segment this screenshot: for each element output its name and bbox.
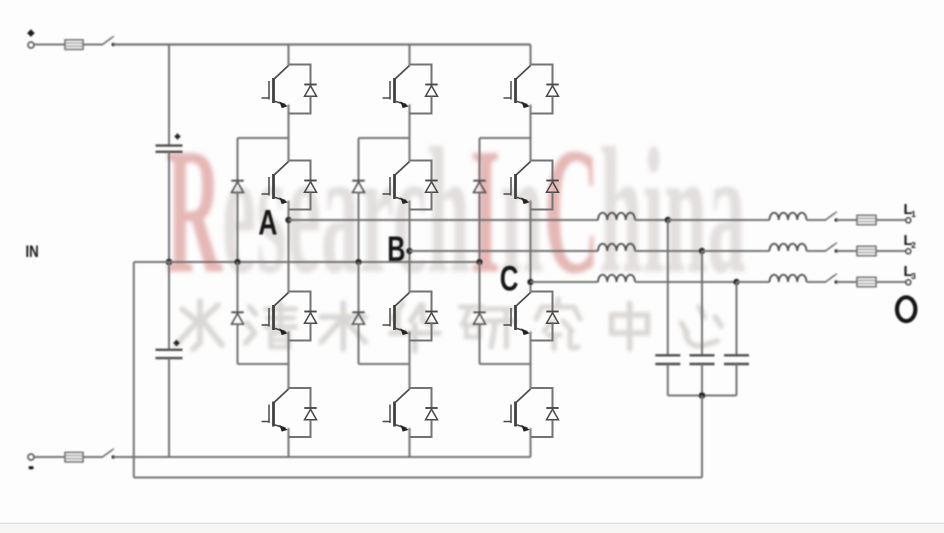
diode D5 anti-parallel freewheel: [425, 65, 437, 114]
decorative: [176, 299, 721, 351]
wire leg A main column: [288, 45, 290, 458]
wire fuse to terminal L3: [876, 281, 906, 283]
junction neutral-capacitor midpoint: [166, 259, 173, 266]
wire Q12 emitter-diode bottom link: [531, 436, 554, 438]
wire Q4 emitter-diode bottom link: [289, 436, 312, 438]
transistor Q9 IGBT: [504, 66, 531, 109]
junction phase A capacitor branch: [665, 217, 671, 223]
wire capacitor Cf2 bottom: [701, 364, 703, 395]
wire neutral riser left: [133, 262, 135, 478]
wire branch node to inductor LC2: [737, 281, 770, 283]
wire top DC bus: [113, 43, 530, 45]
wire Q10 collector-diode top link: [531, 160, 554, 162]
wire Q6 emitter-diode bottom link: [410, 209, 433, 211]
diode D8 anti-parallel freewheel: [425, 388, 437, 437]
wire leg B clamp upper link: [359, 137, 410, 139]
junction neutral leg B: [355, 259, 361, 265]
node C phase tap: [527, 279, 533, 285]
diode D7 anti-parallel freewheel: [425, 292, 437, 341]
wire top bus to capacitor C1: [168, 45, 170, 146]
wire inductor LC2 to switch: [807, 281, 827, 283]
svg-text:IN: IN: [26, 242, 39, 261]
decorative: [0, 523, 944, 533]
wire inductor LC1 to branch node: [635, 281, 737, 283]
diode DB2 clamp lower: [352, 262, 364, 364]
wire Q2 emitter-diode bottom link: [289, 209, 312, 211]
wire capacitor branch B: [701, 251, 703, 355]
circuit schematic: [26, 29, 917, 477]
label O output neutral: [897, 297, 915, 321]
wire leg C main column: [530, 45, 532, 458]
inductor LB2: [770, 244, 807, 251]
diode D1 anti-parallel freewheel: [304, 65, 316, 114]
diode D11 anti-parallel freewheel: [546, 292, 558, 341]
transistor Q1 IGBT: [262, 66, 289, 109]
diode DC1 clamp upper: [473, 138, 485, 262]
fuse FAout: [857, 215, 876, 224]
wire Q3 collector-diode top link: [289, 291, 312, 293]
switch SBout: [826, 243, 839, 253]
wire Q12 collector-diode top link: [531, 387, 554, 389]
wire Q11 emitter-diode bottom link: [531, 340, 554, 342]
wire leg A clamp lower link: [238, 363, 289, 365]
diode D2 anti-parallel freewheel: [304, 161, 316, 210]
wire Q1 emitter-diode bottom link: [289, 113, 312, 115]
wire leg C clamp lower link: [480, 363, 531, 365]
transistor Q5 IGBT: [383, 66, 410, 109]
wire Q2 collector-diode top link: [289, 160, 312, 162]
diode DA1 clamp upper: [231, 138, 243, 262]
diode DC2 clamp lower: [473, 262, 485, 364]
wire DC- to fuse: [34, 456, 65, 458]
wire inductor LA2 to switch: [807, 219, 827, 221]
wire neutral bottom return: [134, 477, 702, 479]
transistor Q4 IGBT: [262, 389, 289, 432]
wire capacitor Cf1 bottom: [667, 364, 669, 395]
capacitor C2 polarity +: [174, 340, 180, 346]
wire fuse F2 to switch S2: [83, 456, 103, 458]
wire Q4 collector-diode top link: [289, 387, 312, 389]
junction filter capacitor common midpoint: [699, 392, 706, 399]
wire neutral node to capacitor C2: [168, 262, 170, 350]
fuse F1: [65, 40, 83, 50]
diode D10 anti-parallel freewheel: [546, 161, 558, 210]
wire leg A clamp upper link: [238, 137, 289, 139]
fuse F2: [65, 452, 83, 462]
wire capacitor C1 to neutral node: [168, 152, 170, 262]
wire branch node to inductor LA2: [668, 219, 770, 221]
wire neutral bus: [134, 261, 480, 263]
wire leg B clamp lower link: [359, 363, 410, 365]
inductor LC2: [770, 275, 807, 282]
wire inductor LB2 to switch: [807, 250, 827, 252]
wire Q10 emitter-diode bottom link: [531, 209, 554, 211]
wire Q8 emitter-diode bottom link: [410, 436, 433, 438]
switch SCout: [826, 274, 839, 284]
inductor LA1: [598, 213, 635, 220]
wire capacitor branch A: [667, 220, 669, 355]
switch S2: [103, 449, 116, 459]
fuse FBout: [857, 246, 876, 255]
wire leg B main column: [409, 45, 411, 458]
wire phase C to filter inductor: [531, 281, 599, 283]
switch S1: [103, 36, 116, 46]
wire inductor LB1 to branch node: [635, 250, 702, 252]
transistor Q8 IGBT: [383, 389, 410, 432]
capacitor Cf1: [655, 355, 680, 364]
node B phase tap: [406, 248, 412, 254]
capacitor Cf2: [690, 355, 715, 364]
wire branch node to inductor LB2: [702, 250, 770, 252]
wire switch to fuse FC: [836, 281, 857, 283]
inductor LC1: [598, 275, 635, 282]
wire Q1 collector-diode top link: [289, 64, 312, 66]
diode DA2 clamp lower: [231, 262, 243, 364]
wire capacitor Cf3 bottom: [736, 364, 738, 395]
wire switch to fuse FA: [836, 219, 857, 221]
capacitor C1 polarity +: [175, 134, 181, 140]
transistor Q3 IGBT: [262, 293, 289, 336]
svg-text:C: C: [500, 258, 519, 298]
wire Q9 collector-diode top link: [531, 64, 554, 66]
transistor Q7 IGBT: [383, 293, 410, 336]
wire Q9 emitter-diode bottom link: [531, 113, 554, 115]
inductor LA2: [770, 213, 807, 220]
wire fuse to terminal L2: [876, 250, 906, 252]
wire switch to fuse FB: [836, 250, 857, 252]
transistor Q12 IGBT: [504, 389, 531, 432]
capacitor Cf3: [724, 355, 749, 364]
wire Q11 collector-diode top link: [531, 291, 554, 293]
transistor Q6 IGBT: [383, 162, 410, 205]
wire leg C clamp upper link: [480, 137, 531, 139]
fuse FCout: [857, 277, 876, 286]
terminal L1: [906, 218, 911, 223]
junction neutral leg A: [234, 259, 240, 265]
wire fuse to terminal L1: [876, 219, 906, 221]
diode D6 anti-parallel freewheel: [425, 161, 437, 210]
wire Q6 collector-diode top link: [410, 160, 433, 162]
transistor Q2 IGBT: [262, 162, 289, 205]
junction phase C capacitor branch: [733, 279, 739, 285]
capacitor C2: [156, 350, 183, 358]
node A phase tap: [285, 217, 291, 223]
wire inductor LA1 to branch node: [635, 219, 668, 221]
wire DC+ to fuse: [34, 44, 65, 46]
wire capacitor common to neutral return: [701, 396, 703, 478]
wire filter capacitor common: [668, 395, 737, 397]
svg-text:B: B: [387, 230, 405, 269]
transistor Q11 IGBT: [504, 293, 531, 336]
diode D12 anti-parallel freewheel: [546, 388, 558, 437]
wire Q7 collector-diode top link: [410, 291, 433, 293]
diode DB1 clamp upper: [352, 138, 364, 262]
terminal DC+ input: [27, 29, 35, 48]
wire capacitor branch C: [736, 282, 738, 355]
diode D4 anti-parallel freewheel: [304, 388, 316, 437]
wire phase A to filter inductor: [289, 219, 599, 221]
diode D3 anti-parallel freewheel: [304, 292, 316, 341]
terminal L3: [906, 280, 911, 285]
junction phase B capacitor branch: [699, 248, 705, 254]
terminal L2: [906, 249, 911, 254]
wire Q5 collector-diode top link: [410, 64, 433, 66]
wire Q8 collector-diode top link: [410, 387, 433, 389]
wire capacitor C2 to bottom bus: [168, 358, 170, 457]
switch SAout: [826, 212, 839, 222]
junction neutral leg C: [476, 259, 482, 265]
svg-text:A: A: [258, 203, 277, 242]
wire Q7 emitter-diode bottom link: [410, 340, 433, 342]
wire fuse F1 to switch S1: [83, 44, 103, 46]
transistor Q10 IGBT: [504, 162, 531, 205]
diode D9 anti-parallel freewheel: [546, 65, 558, 114]
wire bottom DC bus: [113, 456, 530, 458]
terminal DC- input: [28, 454, 34, 469]
inductor LB1: [598, 244, 635, 251]
decorative: [166, 112, 746, 312]
wire phase B to filter inductor: [410, 250, 599, 252]
wire Q5 emitter-diode bottom link: [410, 113, 433, 115]
wire Q3 emitter-diode bottom link: [289, 340, 312, 342]
capacitor C1: [156, 146, 183, 152]
